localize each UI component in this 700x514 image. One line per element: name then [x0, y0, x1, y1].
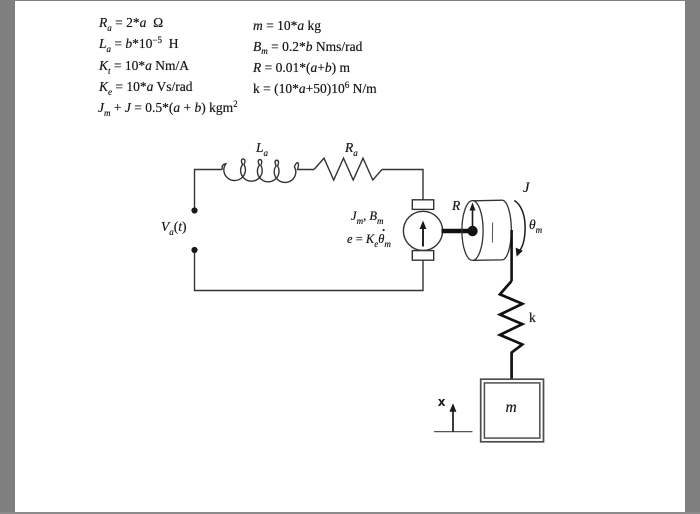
mass box outer — [481, 379, 544, 442]
drum cylinder body top edge — [473, 199, 503, 202]
label m mass — [506, 401, 517, 414]
equation m — [253, 19, 321, 32]
shaft — [442, 229, 469, 234]
label La — [256, 141, 268, 156]
equation Ra — [99, 16, 163, 31]
mass box inner — [484, 383, 539, 438]
wire top left segment — [195, 170, 223, 211]
resistor Ra — [314, 158, 382, 180]
label Va(t) — [161, 220, 187, 235]
left gray margin bar — [0, 0, 15, 512]
radius arrow R — [470, 203, 476, 232]
drum seam line — [491, 223, 493, 243]
spring k — [500, 281, 522, 380]
label J — [523, 182, 529, 195]
wire motor bottom to bottom rail — [195, 251, 424, 291]
drum right face arc — [503, 200, 512, 260]
equation Bm — [253, 40, 362, 55]
label R — [452, 199, 460, 212]
right gray margin bar — [685, 0, 700, 512]
motor arrow — [420, 221, 427, 247]
equation R — [253, 61, 350, 74]
ground reference line — [434, 431, 473, 433]
equation La — [99, 37, 178, 52]
motor brush bottom — [412, 251, 433, 261]
equation Ke — [99, 80, 193, 95]
bottom gray hairline — [0, 512, 700, 514]
label k spring — [529, 311, 536, 324]
equation k — [253, 82, 377, 97]
label Jm, Bm — [351, 210, 383, 224]
label Ra — [345, 141, 358, 156]
source terminal dot bottom — [191, 247, 197, 253]
label theta m — [529, 218, 542, 233]
equation Kt — [99, 59, 189, 74]
label e = Ke thetadot m — [347, 233, 391, 247]
x direction arrow — [449, 403, 456, 431]
motor brush top — [412, 200, 433, 210]
wire resistor to right corner and down to motor — [382, 170, 423, 201]
drum cylinder body bottom edge — [473, 259, 503, 261]
inductor La — [222, 159, 314, 183]
motor body circle — [403, 211, 442, 250]
equation Jm — [98, 101, 238, 116]
label x — [438, 395, 445, 408]
cord from drum to spring — [510, 230, 513, 281]
drum left face ellipse — [462, 201, 483, 261]
top gray hairline — [0, 0, 700, 1]
source terminal dot top — [191, 207, 197, 213]
rotation arrow theta m — [514, 201, 525, 257]
shaft hub dot — [467, 226, 477, 236]
